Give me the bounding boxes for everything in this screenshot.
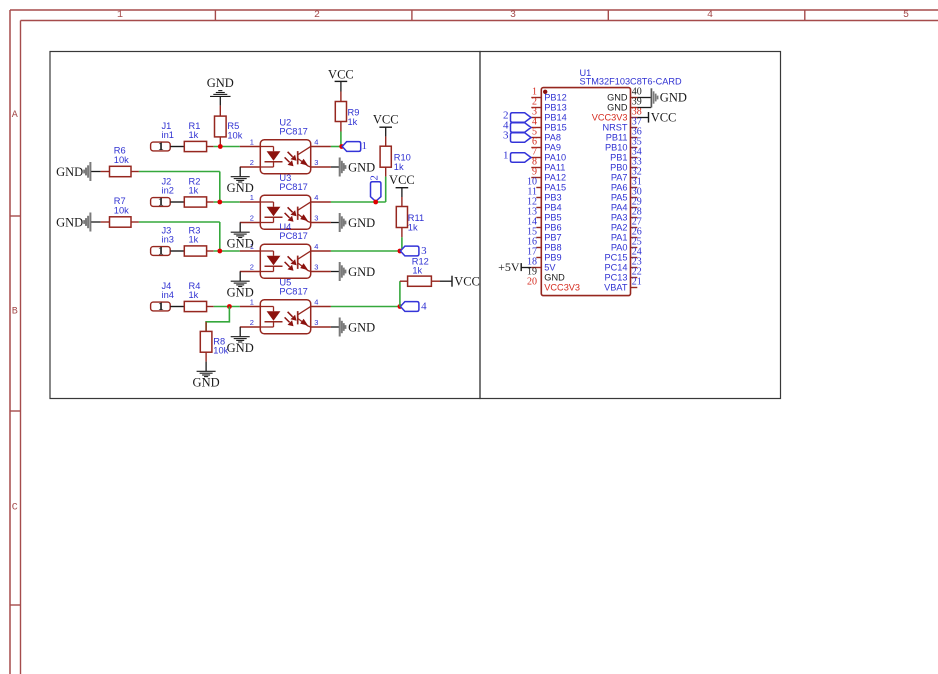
- svg-text:VCC: VCC: [328, 68, 354, 82]
- svg-text:VBAT: VBAT: [604, 282, 628, 292]
- svg-text:1: 1: [158, 196, 164, 208]
- svg-text:PA15: PA15: [544, 182, 566, 192]
- svg-text:3: 3: [421, 245, 427, 257]
- svg-text:PB6: PB6: [544, 222, 561, 232]
- svg-text:2: 2: [369, 175, 381, 181]
- svg-text:PC13: PC13: [605, 272, 628, 282]
- svg-text:GND: GND: [227, 341, 254, 355]
- svg-text:R10: R10: [394, 152, 411, 162]
- svg-text:PC15: PC15: [605, 252, 628, 262]
- svg-text:in1: in1: [162, 130, 174, 140]
- svg-text:B: B: [12, 307, 18, 318]
- svg-text:PB0: PB0: [610, 162, 627, 172]
- svg-text:PC14: PC14: [605, 262, 628, 272]
- svg-text:4: 4: [421, 300, 427, 312]
- svg-text:PA1: PA1: [611, 232, 628, 242]
- svg-text:GND: GND: [227, 285, 254, 299]
- svg-text:VCC: VCC: [454, 274, 480, 288]
- svg-text:3: 3: [314, 263, 318, 272]
- svg-text:VCC: VCC: [389, 173, 415, 187]
- svg-text:PC817: PC817: [279, 231, 307, 241]
- svg-text:3: 3: [314, 158, 318, 167]
- svg-text:2: 2: [314, 10, 320, 21]
- svg-text:PA4: PA4: [611, 202, 628, 212]
- svg-text:PC817: PC817: [279, 286, 307, 296]
- svg-text:20: 20: [527, 277, 537, 288]
- svg-text:2: 2: [250, 158, 254, 167]
- svg-text:PA9: PA9: [544, 142, 561, 152]
- svg-text:GND: GND: [607, 92, 628, 102]
- svg-text:2: 2: [250, 263, 254, 272]
- svg-text:VCC3V3: VCC3V3: [544, 282, 580, 292]
- svg-text:PC817: PC817: [279, 182, 307, 192]
- svg-text:PA12: PA12: [544, 172, 566, 182]
- svg-text:1k: 1k: [408, 223, 418, 233]
- svg-text:+5V: +5V: [498, 260, 520, 274]
- svg-text:GND: GND: [193, 375, 220, 389]
- svg-text:C: C: [12, 503, 18, 514]
- svg-text:4: 4: [314, 242, 318, 251]
- svg-text:PA3: PA3: [611, 212, 628, 222]
- svg-text:in3: in3: [162, 234, 174, 244]
- svg-text:GND: GND: [348, 216, 375, 230]
- svg-text:GND: GND: [607, 102, 628, 112]
- svg-text:PA2: PA2: [611, 222, 628, 232]
- svg-text:GND: GND: [56, 165, 83, 179]
- svg-text:GND: GND: [227, 236, 254, 250]
- svg-text:A: A: [12, 110, 18, 121]
- svg-text:PB11: PB11: [606, 132, 628, 142]
- svg-text:5V: 5V: [544, 262, 556, 272]
- svg-text:GND: GND: [348, 265, 375, 279]
- svg-text:PB12: PB12: [544, 92, 566, 102]
- svg-text:1k: 1k: [412, 266, 422, 276]
- svg-text:4: 4: [314, 298, 318, 307]
- svg-text:2: 2: [250, 318, 254, 327]
- svg-text:2: 2: [250, 214, 254, 223]
- svg-text:GND: GND: [227, 181, 254, 195]
- svg-text:1k: 1k: [189, 234, 199, 244]
- svg-text:5: 5: [903, 10, 909, 21]
- svg-text:1: 1: [158, 245, 164, 257]
- svg-text:PA8: PA8: [544, 132, 561, 142]
- svg-text:R11: R11: [408, 213, 424, 223]
- svg-text:PB5: PB5: [544, 212, 561, 222]
- svg-text:PB4: PB4: [544, 202, 561, 212]
- svg-text:3: 3: [510, 10, 516, 21]
- svg-text:4: 4: [707, 10, 713, 21]
- svg-text:STM32F103C8T6-CARD: STM32F103C8T6-CARD: [580, 77, 682, 87]
- svg-text:1: 1: [158, 141, 164, 153]
- svg-text:in4: in4: [162, 290, 174, 300]
- svg-text:4: 4: [314, 138, 318, 147]
- svg-text:PB3: PB3: [544, 192, 561, 202]
- svg-text:PB14: PB14: [544, 112, 566, 122]
- svg-text:PB9: PB9: [544, 252, 561, 262]
- svg-text:PC817: PC817: [279, 126, 307, 136]
- svg-text:GND: GND: [660, 91, 687, 105]
- svg-text:VCC: VCC: [651, 110, 677, 124]
- svg-text:21: 21: [632, 277, 642, 288]
- svg-text:PB7: PB7: [544, 232, 561, 242]
- svg-text:VCC: VCC: [373, 113, 399, 127]
- svg-text:R9: R9: [348, 107, 360, 117]
- svg-text:PB1: PB1: [610, 152, 627, 162]
- svg-text:GND: GND: [207, 76, 234, 90]
- svg-text:3: 3: [503, 130, 509, 142]
- svg-text:1: 1: [361, 140, 367, 152]
- svg-text:PA10: PA10: [544, 152, 566, 162]
- svg-text:1k: 1k: [189, 130, 199, 140]
- svg-text:3: 3: [314, 318, 318, 327]
- svg-text:PB10: PB10: [605, 142, 627, 152]
- svg-text:GND: GND: [348, 160, 375, 174]
- svg-text:PA0: PA0: [611, 242, 628, 252]
- svg-text:1k: 1k: [189, 185, 199, 195]
- svg-text:10k: 10k: [114, 155, 129, 165]
- svg-text:PA11: PA11: [544, 162, 565, 172]
- svg-text:PA6: PA6: [611, 182, 628, 192]
- svg-text:PB15: PB15: [544, 122, 566, 132]
- svg-text:3: 3: [314, 214, 318, 223]
- svg-text:1: 1: [117, 10, 123, 21]
- svg-text:10k: 10k: [114, 205, 129, 215]
- svg-text:10k: 10k: [227, 130, 242, 140]
- svg-text:VCC3V3: VCC3V3: [592, 112, 628, 122]
- svg-text:PA7: PA7: [611, 172, 628, 182]
- svg-text:PA5: PA5: [611, 192, 628, 202]
- svg-text:1k: 1k: [348, 117, 358, 127]
- svg-text:in2: in2: [162, 185, 174, 195]
- svg-text:1: 1: [503, 150, 509, 162]
- svg-text:GND: GND: [544, 272, 565, 282]
- svg-text:NRST: NRST: [602, 122, 627, 132]
- svg-text:GND: GND: [348, 320, 375, 334]
- svg-text:1: 1: [250, 138, 254, 147]
- svg-text:GND: GND: [56, 215, 83, 229]
- svg-text:10k: 10k: [213, 346, 228, 356]
- svg-text:1k: 1k: [394, 162, 404, 172]
- svg-text:PB8: PB8: [544, 242, 561, 252]
- svg-text:PB13: PB13: [544, 102, 566, 112]
- svg-text:1: 1: [158, 301, 164, 313]
- svg-text:4: 4: [314, 193, 318, 202]
- svg-text:1k: 1k: [189, 290, 199, 300]
